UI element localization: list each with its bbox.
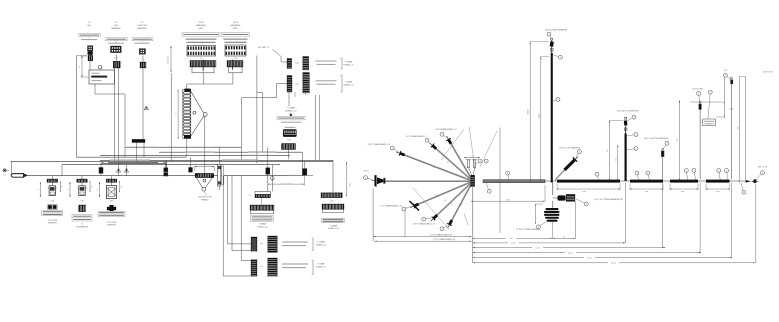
svg-text:NO SPILL "X": NO SPILL "X" [258, 47, 270, 49]
svg-text:7-40: 7-40 [110, 200, 114, 202]
svg-text:(INT): (INT) [199, 28, 204, 30]
svg-text:BOARD L-X: BOARD L-X [316, 244, 326, 247]
svg-text:x.xx: x.xx [582, 191, 585, 193]
svg-text:7-06: 7-06 [287, 140, 291, 142]
svg-text:BOARD L-07: BOARD L-07 [285, 110, 296, 113]
svg-text:TO MAIN: TO MAIN [317, 241, 325, 244]
svg-text:LED: LED [114, 25, 118, 27]
svg-text:0.43: 0.43 [729, 108, 733, 110]
svg-text:7-40: 7-40 [50, 200, 54, 202]
svg-text:x.xx: x.xx [509, 238, 512, 240]
svg-text:BOARD L-X: BOARD L-X [344, 83, 354, 86]
svg-text:LIGHT SW: LIGHT SW [137, 25, 146, 27]
svg-text:C/N TO MAIN BOARD L-X: C/N TO MAIN BOARD L-X [435, 128, 457, 131]
svg-text:16.50: 16.50 [528, 110, 530, 115]
svg-text:TO MAIN: TO MAIN [345, 80, 353, 83]
svg-text:7.74: 7.74 [506, 199, 510, 201]
svg-text:6.5: 6.5 [447, 162, 449, 164]
svg-text:LED: LED [87, 25, 91, 27]
svg-text:2: 2 [38, 189, 40, 190]
svg-text:XX TO: XX TO [363, 170, 369, 172]
svg-text:HARNESS: HARNESS [111, 27, 121, 30]
svg-text:5.5: 5.5 [737, 127, 739, 129]
svg-text:HARNESS: HARNESS [196, 24, 206, 27]
svg-text:xx.x in: xx.x in [568, 252, 573, 254]
svg-text:TO MAIN: TO MAIN [317, 263, 325, 266]
svg-text:2: 2 [97, 189, 99, 190]
svg-text:(FRT): (FRT) [233, 28, 239, 30]
svg-text:TO MAIN: TO MAIN [287, 107, 295, 110]
svg-text:1 in: 1 in [91, 186, 93, 189]
svg-text:5.5: 5.5 [677, 139, 679, 142]
svg-text:HARNESS: HARNESS [231, 24, 241, 27]
svg-text:TO MAIN: TO MAIN [330, 224, 338, 227]
svg-text:7-1x: 7-1x [260, 243, 263, 245]
svg-text:C/O TO MAIN BOARD L-7: C/O TO MAIN BOARD L-7 [406, 135, 427, 138]
svg-text:7-40: 7-40 [80, 200, 84, 202]
svg-text:C/N 70-05 TO INVERTER: C/N 70-05 TO INVERTER [617, 110, 639, 112]
svg-text:C/N 70-00 INT INVERTER: C/N 70-00 INT INVERTER [545, 29, 568, 31]
svg-text:COMPRESSOR: COMPRESSOR [76, 226, 89, 228]
svg-text:7-1x: 7-1x [260, 266, 263, 268]
svg-text:5.0: 5.0 [615, 159, 617, 162]
svg-text:BOARD L-X: BOARD L-X [316, 266, 326, 269]
svg-text:7-x: 7-x [200, 58, 203, 60]
svg-text:XXX TO XX: XXX TO XX [758, 167, 768, 169]
svg-text:6.6: 6.6 [444, 200, 446, 202]
svg-text:T04: T04 [724, 70, 727, 72]
svg-text:BOARD L-06: BOARD L-06 [328, 227, 339, 230]
svg-text:xx.x in: xx.x in [611, 263, 616, 265]
svg-text:2: 2 [68, 189, 70, 190]
svg-text:7.5: 7.5 [607, 150, 609, 153]
svg-text:74-02: 74-02 [198, 22, 204, 24]
svg-text:x.xx: x.xx [681, 191, 684, 193]
svg-text:FEMALE: FEMALE [201, 198, 209, 201]
svg-text:TO MAIN: TO MAIN [345, 61, 353, 64]
svg-text:5.5: 5.5 [451, 204, 453, 206]
svg-text:x.xx: x.xx [716, 191, 719, 193]
svg-text:C/N TO LIGHT SW HARNESS: C/N TO LIGHT SW HARNESS [644, 137, 669, 140]
svg-text:7-31: 7-31 [295, 84, 299, 86]
svg-text:TO 70-02 TOWING HARNESS: TO 70-02 TOWING HARNESS [516, 228, 541, 231]
svg-text:C/N TO MAIN BOARD L-7X: C/N TO MAIN BOARD L-7X [413, 223, 436, 226]
svg-text:BOARD L-05: BOARD L-05 [257, 225, 268, 228]
svg-text:C/T (TO MAIN BOARD)+W: C/T (TO MAIN BOARD)+W [430, 233, 452, 236]
svg-text:xx.x in: xx.x in [587, 257, 592, 259]
svg-text:70-05 TO LED HARNESS: 70-05 TO LED HARNESS [559, 147, 581, 150]
svg-text:TO DC PWR: TO DC PWR [107, 222, 117, 224]
svg-text:XXX TO XX: XXX TO XX [763, 72, 773, 74]
svg-text:TO DC PWR: TO DC PWR [47, 220, 57, 222]
svg-text:TO MAIN: TO MAIN [259, 222, 267, 225]
svg-text:1 in: 1 in [61, 186, 63, 189]
svg-text:7-x: 7-x [249, 195, 252, 197]
svg-text:1-01: 1-01 [234, 58, 238, 60]
svg-text:C/L TO MAIN BOARD L-7X: C/L TO MAIN BOARD L-7X [380, 205, 403, 208]
svg-text:11 12 3.0: 11 12 3.0 [168, 56, 170, 63]
svg-text:7-30: 7-30 [295, 63, 299, 65]
svg-text:INVERTER: INVERTER [107, 225, 116, 227]
svg-text:x.xx: x.xx [645, 191, 648, 193]
svg-text:HARNESS: HARNESS [137, 27, 147, 30]
svg-text:C/N TO MAIN BOARD L-7X: C/N TO MAIN BOARD L-7X [368, 143, 391, 146]
svg-text:xx.x in: xx.x in [511, 243, 516, 245]
svg-text:7 in: 7 in [176, 113, 178, 116]
svg-text:x.x: x.x [563, 237, 565, 239]
svg-text:(70 TO 05 TOWING HARNESS RE): (70 TO 05 TOWING HARNESS RE) [594, 198, 623, 201]
svg-text:74-02: 74-02 [233, 22, 239, 24]
svg-text:xx.x in: xx.x in [535, 247, 540, 249]
svg-text:1 in: 1 in [120, 186, 122, 189]
svg-text:INVERTER: INVERTER [48, 223, 57, 225]
svg-text:C/T (TO MAIN BOARD)+W: C/T (TO MAIN BOARD)+W [433, 238, 455, 241]
svg-text:BOARD L-X: BOARD L-X [344, 64, 354, 67]
svg-text:C/N TO LINK: C/N TO LINK [692, 89, 703, 91]
svg-text:7-x: 7-x [3, 175, 6, 177]
svg-text:GROUND STUD: GROUND STUD [198, 197, 212, 199]
svg-text:14.25: 14.25 [538, 114, 540, 119]
